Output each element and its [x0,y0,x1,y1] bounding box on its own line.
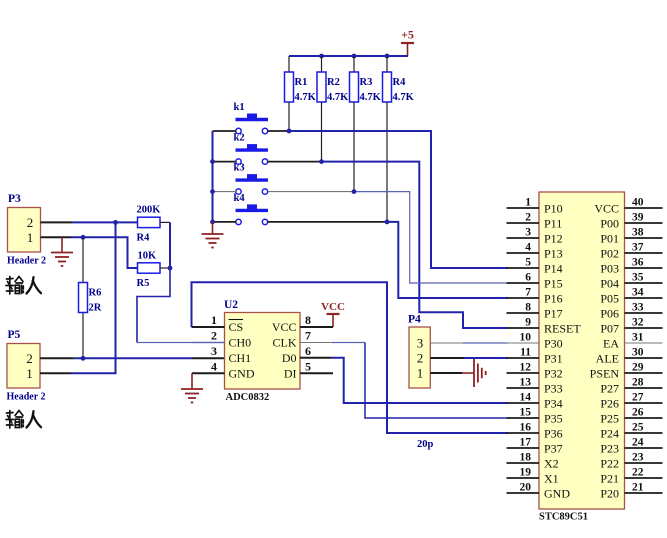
svg-text:D0: D0 [282,351,297,365]
pin 26 P25 stub [625,407,663,419]
wire CLK to P35 [332,343,508,419]
svg-text:20: 20 [520,482,532,494]
wire k1 to P14 [289,131,508,268]
pin 12 P32 stub [507,362,540,374]
svg-text:4: 4 [525,242,531,254]
wire D0 to P34 [332,358,508,403]
svg-text:4.7K: 4.7K [295,92,317,103]
svg-text:5: 5 [525,257,531,269]
IC U3 STC89C51 [539,192,625,523]
svg-text:R4: R4 [393,77,407,88]
svg-text:3: 3 [417,336,424,351]
junction k4/R4 [385,220,390,225]
svg-text:10: 10 [520,332,532,344]
svg-text:X1: X1 [544,472,559,486]
wire U2 pin6 D0 stub [300,357,332,359]
svg-text:PSEN: PSEN [590,367,620,381]
pin 14 P34 stub [507,392,540,404]
svg-text:30: 30 [632,347,644,359]
svg-text:R2: R2 [327,77,340,88]
svg-text:VCC: VCC [321,301,345,313]
svg-text:3: 3 [525,227,531,239]
wire P5 pin1 to P3 pin2 [71,222,116,373]
svg-text:P4: P4 [408,314,421,326]
svg-text:R5: R5 [137,278,150,289]
ground under buttons [202,222,224,248]
wire k1 left stub [213,130,237,132]
junction k3/R3 [352,189,357,194]
pin 33 P06 stub [625,302,663,314]
svg-text:15: 15 [520,407,532,419]
svg-text:19: 19 [520,467,532,479]
wire divider to U2 CH0 [137,268,170,343]
svg-text:1: 1 [211,313,217,327]
wire R3 lead to k3 [353,102,355,192]
svg-text:P05: P05 [600,292,619,306]
svg-text:2: 2 [26,351,33,366]
svg-text:4.7K: 4.7K [360,92,382,103]
svg-text:24: 24 [632,437,644,449]
svg-text:21: 21 [632,482,644,494]
wire k3 to P15 (thin) [354,192,508,283]
junction k2/R2 [319,159,324,164]
svg-text:GND: GND [229,367,255,381]
svg-text:14: 14 [520,392,532,404]
svg-text:33: 33 [632,302,644,314]
svg-text:P35: P35 [544,412,563,426]
svg-text:27: 27 [632,392,644,404]
wire k3 right stub [268,191,354,193]
svg-text:6: 6 [305,344,311,358]
pin 9 RESET stub [507,317,540,329]
svg-text:40: 40 [632,197,644,209]
svg-text:2: 2 [27,215,34,230]
svg-text:36: 36 [632,257,644,269]
svg-text:P00: P00 [600,217,619,231]
wire P4 pin3 to P30 (thin) [463,342,508,344]
wire k2 to RESET [322,162,509,328]
svg-text:39: 39 [632,212,644,224]
wire P4 pin2 to P31 [464,357,508,359]
svg-text:P01: P01 [600,232,619,246]
pin 37 P02 stub [625,242,663,254]
svg-text:EA: EA [603,337,619,351]
svg-text:P16: P16 [544,292,563,306]
junction on rail at R3 [352,54,357,59]
junction P3 pin2 / P5 vertical [113,220,118,225]
wire R4 lead to k4 [386,102,388,222]
connector P5 Header 2 [7,329,46,403]
wire P3 pin2 stub [41,221,73,223]
svg-text:17: 17 [520,437,532,449]
pin 13 P33 stub [507,377,540,389]
svg-text:P10: P10 [544,202,563,216]
svg-text:P33: P33 [544,382,563,396]
wire k3 left stub [213,191,237,193]
ground at U2 [181,373,203,402]
svg-text:P30: P30 [544,337,563,351]
svg-text:7: 7 [525,287,531,299]
pin 29 PSEN stub [625,362,663,374]
svg-text:P25: P25 [600,412,619,426]
svg-text:4.7K: 4.7K [327,92,349,103]
wire U2 pin7 CLK stub (thin) [300,342,332,344]
pin 22 P21 stub [625,467,663,479]
power VCC at U2 [321,301,345,327]
svg-text:18: 18 [520,452,532,464]
svg-text:P07: P07 [600,322,619,336]
pin 2 P11 stub [507,212,540,224]
svg-text:CH0: CH0 [229,336,252,350]
svg-text:11: 11 [520,347,531,359]
svg-text:P12: P12 [544,232,563,246]
ground at P3 [51,237,73,266]
pushbutton k2 [234,133,269,165]
svg-text:k2: k2 [234,133,245,144]
wire CS to P36 [192,282,509,433]
svg-text:3: 3 [211,344,217,358]
wire R4 right to R5 right [169,222,171,268]
pin 3 P12 stub [507,227,540,239]
svg-text:2: 2 [417,351,424,366]
svg-text:38: 38 [632,227,644,239]
pin 6 P15 stub [507,272,540,284]
svg-text:16: 16 [520,422,532,434]
pin 34 P05 stub [625,287,663,299]
wire P4 pin1 stub [430,372,462,374]
svg-text:9: 9 [525,317,531,329]
junction k3 common [210,189,215,194]
wire k2 left stub [213,161,237,163]
svg-text:P06: P06 [600,307,619,321]
resistor R5 10K [137,251,171,290]
svg-text:25: 25 [632,422,644,434]
svg-text:8: 8 [525,302,531,314]
pin 27 P26 stub [625,392,663,404]
svg-text:P11: P11 [544,217,562,231]
resistor R3 4.7K [350,56,382,103]
svg-text:CLK: CLK [273,336,297,350]
svg-text:VCC: VCC [594,202,619,216]
pin 36 P03 stub [625,257,663,269]
pin 38 P01 stub [625,227,663,239]
wire P3 pin2 to R4 [72,221,138,223]
wire P5 pin2 to U2 CH1 [74,357,193,359]
pin 19 X1 stub [507,467,540,479]
svg-text:Header 2: Header 2 [7,392,46,403]
pin 16 P36 stub [507,422,540,434]
wire R1 lead to k1 [288,102,290,131]
svg-text:28: 28 [632,377,644,389]
svg-text:4.7K: 4.7K [393,92,415,103]
junction R5 right [168,266,173,271]
pin 5 P14 stub [507,257,540,269]
wire U2 pin2 stub (thin) [192,342,225,344]
svg-text:P17: P17 [544,307,563,321]
power +5 [401,28,414,57]
svg-text:ALE: ALE [596,352,619,366]
pin 18 X2 stub [507,452,540,464]
resistor R4 200K [137,205,171,244]
svg-text:RESET: RESET [544,322,581,336]
svg-text:k1: k1 [234,102,245,113]
svg-text:P5: P5 [8,329,21,341]
resistor R1 4.7K [285,56,317,103]
svg-text:DI: DI [284,367,297,381]
svg-text:X2: X2 [544,457,559,471]
wire CH1 stub [192,357,225,359]
wire R2 lead to k2 [321,102,323,162]
svg-text:P22: P22 [600,457,619,471]
svg-text:5: 5 [305,360,311,374]
svg-text:12: 12 [520,362,532,374]
wire U2 pin8 VCC stub [300,326,333,328]
op-amp/ADC U2 ADC0832 [211,299,311,403]
svg-text:7: 7 [305,329,311,343]
pin 7 P16 stub [507,287,540,299]
svg-text:P03: P03 [600,262,619,276]
svg-text:2: 2 [211,329,217,343]
pin 20 GND stub [507,482,540,494]
svg-text:P14: P14 [544,262,563,276]
wire CH0 horizontal (thin) [137,342,225,344]
pin 23 P22 stub [625,452,663,464]
svg-text:P36: P36 [544,427,563,441]
svg-text:1: 1 [27,230,34,245]
pin 30 ALE stub [625,347,663,359]
svg-text:P15: P15 [544,277,563,291]
wire k4 right stub [268,221,387,223]
pin 25 P24 stub [625,422,663,434]
svg-text:Header 2: Header 2 [7,256,46,267]
ground at P4 (rotated) [462,359,486,387]
pin 39 P00 stub [625,212,663,224]
pin 28 P27 stub [625,377,663,389]
wire k1 right stub [268,130,289,132]
svg-text:37: 37 [632,242,644,254]
wire k4 to P16 [387,222,508,298]
svg-text:10K: 10K [138,251,158,262]
pin 15 P35 stub [507,407,540,419]
svg-text:P26: P26 [600,397,619,411]
wire k4 left stub [213,221,237,223]
wire U2 pin4 GND stub [192,372,225,374]
svg-text:32: 32 [632,317,644,329]
junction P3 pin1 / R6 [81,235,86,240]
wire P3 pin1 to R5 [71,237,138,268]
label P3 输入 [6,277,41,295]
label P5 输入 [6,411,41,429]
junction k1/R1 [287,129,292,134]
svg-text:CH1: CH1 [229,351,252,365]
svg-text:P3: P3 [8,193,21,205]
pin 10 P30 stub [507,332,540,344]
pin 4 P13 stub [507,242,540,254]
connector P4 [408,314,430,389]
wire U2 pin1 stub [192,326,225,328]
wire button common vertical [212,131,214,222]
svg-text:R4: R4 [137,233,151,244]
svg-text:CS: CS [229,320,244,334]
pin 17 P37 stub [507,437,540,449]
pin 21 P20 stub [625,482,663,494]
svg-text:26: 26 [632,407,644,419]
pushbutton k1 [234,102,269,134]
pin 1 P10 stub [507,197,540,209]
pin 8 P17 stub [507,302,540,314]
svg-text:P34: P34 [544,397,563,411]
svg-text:P13: P13 [544,247,563,261]
wire P5 pin1 stub [40,372,71,374]
svg-text:R1: R1 [295,77,308,88]
wire P4 pin2 stub [430,357,464,359]
svg-text:P31: P31 [544,352,563,366]
pin 35 P04 stub [625,272,663,284]
svg-text:P23: P23 [600,442,619,456]
svg-text:22: 22 [632,467,644,479]
svg-text:+5: +5 [401,28,414,42]
wire P4 pin3 stub (thin) [430,342,463,344]
svg-text:13: 13 [520,377,532,389]
svg-text:k4: k4 [234,193,246,204]
svg-text:U2: U2 [224,299,238,311]
pin 40 VCC stub [625,197,663,209]
svg-text:31: 31 [632,332,644,344]
wire k2 right stub [268,161,322,163]
svg-text:1: 1 [525,197,531,209]
svg-text:P04: P04 [600,277,619,291]
svg-text:R3: R3 [360,77,373,88]
svg-text:GND: GND [544,487,570,501]
resistor R6 2R [79,237,102,358]
pushbutton k4 [234,193,269,225]
svg-text:6: 6 [525,272,531,284]
connector P3 Header 2 [7,193,46,267]
junction P5 pin2 / R6 bottom [81,356,86,361]
svg-text:P24: P24 [600,427,619,441]
svg-text:ADC0832: ADC0832 [226,392,270,403]
svg-text:4: 4 [211,360,217,374]
svg-text:34: 34 [632,287,644,299]
svg-text:VCC: VCC [272,320,297,334]
pin 24 P23 stub [625,437,663,449]
resistor R2 4.7K [317,56,349,103]
svg-text:P32: P32 [544,367,563,381]
svg-text:1: 1 [417,366,424,381]
svg-text:1: 1 [26,366,33,381]
svg-text:200K: 200K [137,205,162,216]
pushbutton k3 [234,163,269,195]
wire P5 pin2 stub [40,357,74,359]
wire +5 rail [289,55,408,57]
svg-text:29: 29 [632,362,644,374]
svg-text:23: 23 [632,452,644,464]
svg-text:P37: P37 [544,442,563,456]
junction on rail at R2 [319,54,324,59]
svg-text:35: 35 [632,272,644,284]
svg-text:20p: 20p [417,439,434,450]
pin 31 EA stub [625,332,663,344]
svg-text:2: 2 [525,212,531,224]
junction k4 common [210,220,215,225]
pin 32 P07 stub [625,317,663,329]
svg-text:R6: R6 [89,288,102,299]
svg-text:k3: k3 [234,163,245,174]
svg-text:P20: P20 [600,487,619,501]
wire P3 pin1 stub [41,236,72,238]
junction on rail at R4 [385,54,390,59]
svg-text:8: 8 [305,313,311,327]
resistor R4 4.7K [383,56,415,103]
junction k2 common [210,159,215,164]
svg-text:P21: P21 [600,472,619,486]
svg-text:P27: P27 [600,382,619,396]
wire U2 pin5 DI stub [300,372,333,374]
svg-text:P02: P02 [600,247,619,261]
pin 11 P31 stub [507,347,540,359]
svg-text:STC89C51: STC89C51 [539,512,588,523]
svg-text:2R: 2R [89,303,102,314]
